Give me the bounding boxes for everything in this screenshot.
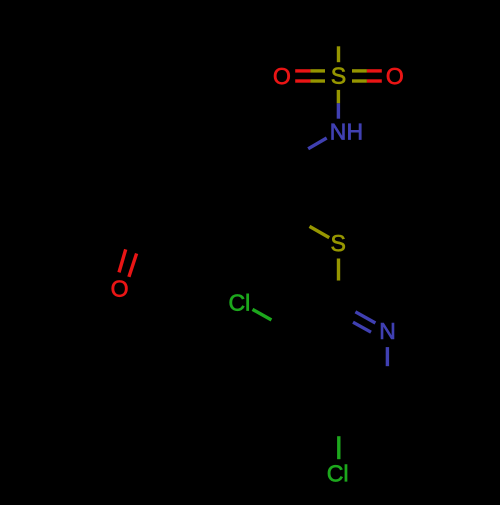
bond CH3-S1 methyl stub carbon half (black): [337, 20, 340, 47]
pyridine ring carbon bonds (black, invisible on bg): [291, 303, 386, 413]
bond S1=O left upper line: [295, 69, 310, 72]
atom Cl (pyridine 3-chloro) l: [247, 294, 249, 311]
atom O (sulfonyl right oxygen): [387, 68, 403, 84]
bond C-C(=O) carbonyl attachment (black): [145, 215, 194, 243]
atom H of sulfonamide NH: [348, 124, 361, 140]
bond C=O double bond left line (red half): [119, 249, 126, 272]
bond S1=O right upper line: [352, 69, 367, 72]
bond C3py-Cl chlorine half: [253, 309, 272, 320]
bond C2py=N main line: [339, 303, 355, 312]
bond S1-N sulfonamide: [337, 90, 340, 103]
bond C5py-Cl carbon half (black): [337, 413, 340, 436]
atom N (pyridine nitrogen): [381, 323, 394, 339]
benzene ring carbon bonds (black, invisible on bg): [193, 131, 290, 243]
atom Cl (pyridine 5-chloro) C: [328, 465, 343, 481]
bond CH3-S1 methyl stub sulfur half: [337, 46, 340, 62]
bond C2py=N inner line: [344, 317, 353, 322]
bond S1=O left lower line: [295, 79, 310, 82]
bond N(H)-C1 benzene: [308, 138, 327, 149]
atom Cl (pyridine 5-chloro) l: [345, 465, 347, 482]
bond C=O double bond right line (red half): [129, 254, 137, 277]
bond Npy-C6: [386, 347, 389, 366]
atom O (sulfonyl left oxygen): [274, 68, 290, 84]
atom S1 (sulfonyl sulfur): [332, 68, 345, 84]
atom O (carbonyl oxygen): [112, 280, 128, 296]
bond C5py-Cl chlorine half: [337, 436, 340, 459]
atom Cl (pyridine 3-chloro) C: [230, 294, 245, 310]
atom N of sulfonamide NH: [332, 124, 345, 140]
bond S1=O right lower line: [352, 79, 367, 82]
bond S2-C2 pyridine: [337, 259, 340, 281]
atom S2 (thioether sulfur): [332, 235, 345, 251]
bond C2benzene-S2 thioether: [290, 215, 310, 226]
